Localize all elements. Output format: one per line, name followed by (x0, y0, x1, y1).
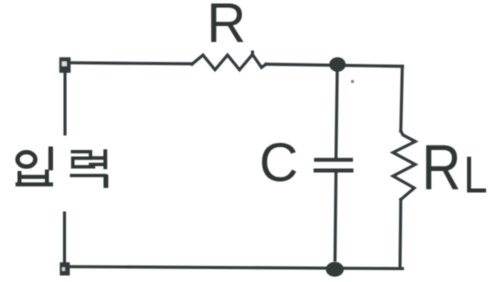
wire top horizontal left (terminal to R) (71, 63, 192, 64)
wire bottom horizontal (66, 267, 403, 269)
svg-text:R: R (207, 0, 246, 54)
wire capacitor branch upper (top junction to C) (336, 66, 337, 158)
svg-text:L: L (464, 147, 488, 205)
input terminal bottom-left (60, 262, 70, 275)
capacitor C top plate (316, 158, 351, 162)
junction node top (R / C / RL) (329, 57, 345, 71)
svg-text:R: R (422, 131, 461, 203)
junction node bottom (C / RL / return) (326, 262, 344, 277)
wire right vertical lower (RL to bottom wire) (398, 200, 402, 268)
wire left vertical upper (terminal to label gap) (63, 71, 66, 134)
wire capacitor branch lower (C to bottom junction) (335, 173, 336, 261)
svg-text:C: C (259, 132, 298, 194)
capacitor C bottom plate (316, 169, 352, 173)
resistor RL (393, 131, 415, 200)
wire right vertical upper (corner to RL) (401, 66, 403, 131)
wire left vertical lower (label gap to terminal) (63, 213, 66, 263)
input terminal top-left (59, 57, 70, 73)
label 력 (Hangul syllable "ryeok", right char of input) (72, 151, 106, 186)
label 입 (Hangul syllable "ip", left char of input) (18, 149, 52, 185)
scan speck (351, 80, 354, 83)
resistor R (192, 52, 266, 70)
wire top horizontal right (R to top-right corner) (266, 64, 403, 66)
